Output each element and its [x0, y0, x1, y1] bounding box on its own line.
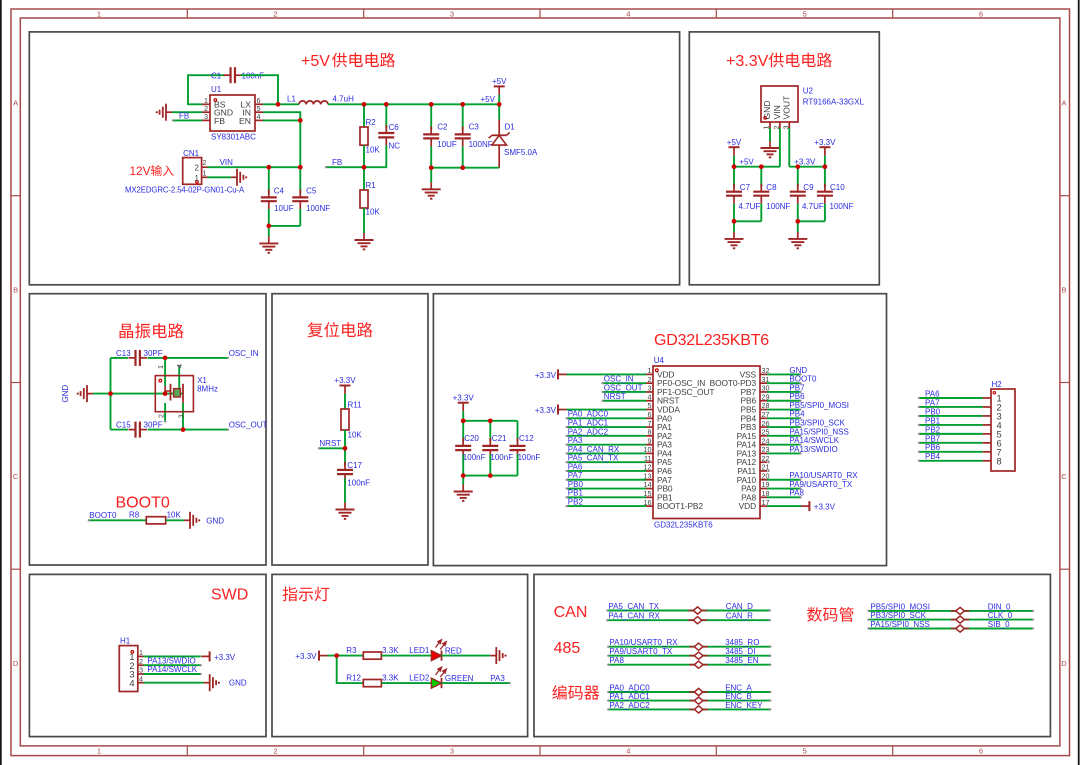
wire PA4_CAN_RX pin10: [566, 452, 646, 454]
capacitor C13: [129, 350, 147, 366]
LED2 diode green: [431, 678, 441, 688]
svg-text:FB: FB: [214, 116, 225, 126]
wire CN1 pin1 gnd: [208, 176, 232, 178]
net label +5V (sec2): [739, 158, 754, 167]
net label PA15/SPI0_NSS (seg): [870, 620, 929, 629]
wire LED2 to PA3: [442, 682, 511, 684]
svg-text:SY8301ABC: SY8301ABC: [211, 133, 256, 142]
junction bottom C2: [429, 165, 434, 170]
ground R8: [184, 512, 200, 529]
svg-text:C6: C6: [389, 123, 400, 132]
net label PB5/SPI0_MOSI (mcu): [789, 401, 849, 410]
svg-text:+5V: +5V: [492, 77, 507, 86]
svg-text:10K: 10K: [366, 146, 381, 155]
svg-text:CAN_D: CAN_D: [726, 602, 753, 611]
wire IN down: [263, 112, 300, 167]
C17 refdes: [347, 461, 362, 470]
net label 3485_DI: [725, 647, 755, 656]
svg-text:H1: H1: [120, 636, 131, 645]
svg-text:1: 1: [97, 747, 101, 756]
svg-text:D1: D1: [505, 123, 516, 132]
resistor R1: [360, 167, 368, 233]
H2 pin stub 3: [983, 415, 991, 417]
window edge left: [0, 0, 2, 765]
svg-text:100NF: 100NF: [469, 140, 493, 149]
svg-text:PB7: PB7: [925, 434, 941, 443]
net label PB1 (mcu): [568, 489, 584, 498]
svg-text:R11: R11: [348, 401, 363, 410]
R2 refdes: [366, 118, 377, 127]
junction EN: [298, 118, 303, 123]
title indicator LEDs: [282, 587, 329, 602]
connector CN1 body: [183, 158, 202, 185]
wire R11 bottom: [344, 430, 346, 448]
wire PA5_CAN_TX-CAN_D: [606, 609, 771, 611]
L1 value 4.7uH: [333, 95, 355, 104]
wire X1 pin1 lead: [164, 358, 166, 386]
wire PA7 to H2: [918, 406, 983, 408]
svg-text:R3: R3: [346, 646, 357, 655]
resistor R3: [363, 652, 381, 659]
svg-text:SIB_0: SIB_0: [988, 620, 1010, 629]
connector H2 body: [991, 389, 1015, 471]
C2 value 10UF: [437, 140, 457, 149]
svg-text:R2: R2: [366, 118, 377, 127]
MCU U4 body: [653, 366, 760, 519]
net port CLK_0: [951, 616, 970, 623]
section box MCU: [433, 294, 886, 566]
wire OSC_OUT row right: [148, 428, 230, 430]
svg-text:PA9/USART0_TX: PA9/USART0_TX: [609, 647, 673, 656]
svg-text:R8: R8: [129, 510, 140, 519]
svg-text:4.7uH: 4.7uH: [333, 95, 355, 104]
svg-text:PA4_CAN_RX: PA4_CAN_RX: [568, 445, 620, 454]
wire U1 FB: [172, 119, 202, 121]
svg-text:LED2: LED2: [409, 674, 430, 683]
net label NRST: [319, 439, 341, 448]
svg-text:PA8: PA8: [789, 489, 804, 498]
power +3.3V pin5: [558, 405, 646, 415]
wire PA15/SPI0_NSS-SIB_0: [867, 627, 1034, 629]
H2 refdes: [992, 380, 1003, 389]
inductor L1: [299, 101, 328, 104]
capacitor C10: [817, 167, 833, 222]
svg-text:ENC_B: ENC_B: [725, 692, 752, 701]
svg-text:6: 6: [979, 747, 983, 756]
net label PA4_CAN_RX: [608, 612, 660, 621]
svg-text:+3.3V: +3.3V: [726, 53, 769, 70]
net label PA1_ADC1 (mcu): [568, 418, 609, 427]
svg-text:CLK_0: CLK_0: [988, 611, 1013, 620]
R11 value 10K: [348, 431, 363, 440]
C7 value 4.7UF: [739, 202, 761, 211]
border row letters A-D: [13, 99, 1067, 668]
svg-text:PA6: PA6: [925, 389, 940, 398]
wire PA5_CAN_TX pin11: [566, 461, 646, 463]
C1 refdes: [211, 72, 222, 81]
junction LX/C1: [276, 102, 281, 107]
svg-text:2: 2: [203, 158, 207, 167]
wire BOOT0 left: [88, 519, 147, 521]
svg-text:4: 4: [175, 364, 184, 368]
svg-text:+5V: +5V: [739, 158, 754, 167]
svg-text:PB3/SPI0_SCK: PB3/SPI0_SCK: [789, 418, 845, 427]
net label PA10/USART0_RX (mcu): [789, 471, 858, 480]
section box crystal: [29, 294, 266, 565]
power +3.3V flag (decoup): [458, 403, 469, 421]
wire PA2_ADC2-ENC_KEY: [607, 708, 771, 710]
svg-text:FB: FB: [179, 112, 189, 121]
LED1 diode red: [431, 651, 441, 661]
svg-text:RED: RED: [445, 647, 462, 656]
svg-text:PA2_ADC2: PA2_ADC2: [568, 427, 609, 436]
net label GND vertical: [61, 384, 70, 402]
svg-text:L1: L1: [287, 95, 296, 104]
net port 3485_EN: [689, 661, 708, 668]
wire PB1 pin15: [566, 496, 646, 498]
ground GND left: [77, 385, 93, 402]
wire PA8-3485_EN: [607, 664, 771, 666]
wire C7C8 bottom: [734, 220, 761, 222]
title BOOT0: [116, 495, 170, 512]
net label PA2_ADC2 (enc): [609, 701, 650, 710]
net label BOOT0 (mcu): [789, 375, 817, 384]
title 12V input: [130, 164, 174, 178]
net label PB3/SPI0_SCK (mcu): [789, 418, 845, 427]
svg-text:PA15/SPI0_NSS: PA15/SPI0_NSS: [870, 620, 929, 629]
svg-text:D: D: [1061, 659, 1067, 668]
R12 value 3.3K (2): [382, 674, 399, 683]
wire D1 top lead: [498, 104, 500, 119]
svg-text:1: 1: [203, 168, 207, 177]
window edge right: [1078, 0, 1080, 765]
svg-text:+3.3V: +3.3V: [814, 503, 836, 512]
C3 value 100NF: [469, 140, 493, 149]
junction X1 pin3: [181, 427, 186, 432]
svg-text:PA15/SPI0_NSS: PA15/SPI0_NSS: [789, 427, 848, 436]
wire PA10/USART0_RX-3485_RO: [607, 646, 771, 648]
svg-text:8: 8: [997, 456, 1002, 466]
C5 value 100NF: [306, 204, 330, 213]
svg-text:100NF: 100NF: [306, 204, 330, 213]
title +5V supply: [301, 53, 395, 70]
svg-text:FB: FB: [332, 158, 342, 167]
net label PA5_CAN_TX: [608, 602, 659, 611]
svg-text:BOOT0: BOOT0: [789, 375, 817, 384]
title +3.3V supply: [726, 53, 832, 70]
net label PB0 (mcu): [568, 480, 584, 489]
svg-text:R12: R12: [346, 674, 361, 683]
svg-text:3.3K: 3.3K: [382, 646, 399, 655]
C8 value 100NF: [766, 202, 790, 211]
power +3.3V text (H1): [214, 653, 236, 662]
wire PB4 pin27: [767, 417, 802, 419]
R2 value 10K: [366, 146, 381, 155]
svg-text:+3.3V: +3.3V: [535, 406, 557, 415]
wire H1 pin4 gnd: [144, 682, 204, 684]
svg-text:PB6: PB6: [789, 392, 805, 401]
net label PA7 (H2): [925, 398, 940, 407]
net label BOOT0: [89, 511, 117, 520]
wire OSC_OUT row left: [111, 429, 128, 431]
title encoder: [552, 685, 599, 700]
net label PA14/SWCLK (mcu): [789, 436, 839, 445]
LED1 arrows: [436, 640, 447, 650]
svg-text:PB4: PB4: [925, 452, 941, 461]
C6 refdes: [389, 123, 400, 132]
power +3.3V pin1: [558, 369, 646, 379]
svg-text:+3.3V: +3.3V: [814, 138, 836, 147]
H2 pin stub 1: [983, 397, 991, 399]
wire NRST pin4: [602, 400, 646, 402]
LED2 refdes: [409, 674, 430, 683]
wire H1 pin1 +3.3V: [144, 651, 210, 661]
LED2 arrows: [436, 667, 447, 677]
net label PB7 (H2): [925, 434, 941, 443]
H2 pin stub 6: [983, 442, 991, 444]
net port ENC_B: [689, 697, 708, 704]
wire X1 pin4 lead: [178, 365, 180, 393]
junction FB: [362, 165, 367, 170]
wire PA3 pin9: [566, 443, 646, 445]
wire OSC_IN row right: [148, 357, 230, 359]
op-amp U1 SY8301ABC body: [210, 95, 255, 131]
net label NRST (mcu): [604, 392, 626, 401]
svg-text:+5V: +5V: [727, 138, 742, 147]
svg-text:10UF: 10UF: [437, 140, 457, 149]
net label 3485_RO: [725, 638, 759, 647]
wire PA10/USART0_RX pin20: [767, 479, 802, 481]
svg-text:100nF: 100nF: [490, 453, 513, 462]
net label ENC_KEY: [725, 701, 763, 710]
net label GND (H1): [229, 679, 247, 688]
svg-text:PB6: PB6: [925, 443, 941, 452]
net label PB1 (H2): [925, 416, 941, 425]
svg-text:B: B: [13, 285, 18, 294]
wire PB7 pin30: [767, 391, 802, 393]
wire PA14/SWCLK (H1): [144, 673, 202, 675]
C4 value 10UF: [274, 204, 294, 213]
net label CLK_0: [988, 611, 1013, 620]
power +3.3V text (led): [295, 652, 317, 661]
title CAN: [554, 604, 588, 621]
capacitor C7: [726, 167, 742, 222]
power +3.3V flag (sec2): [819, 147, 830, 167]
svg-text:C20: C20: [464, 434, 479, 443]
ground C2 rail: [422, 168, 441, 199]
wire GND to crystal: [93, 393, 182, 395]
wire C1 loop left: [188, 75, 225, 104]
svg-text:OSC_OUT: OSC_OUT: [604, 383, 643, 392]
svg-text:NRST: NRST: [604, 392, 626, 401]
capacitor C21: [482, 421, 498, 476]
C3 refdes: [469, 123, 480, 132]
C20 refdes: [464, 434, 479, 443]
svg-text:+3.3V: +3.3V: [453, 393, 475, 402]
svg-text:5: 5: [803, 747, 807, 756]
C4 refdes: [274, 186, 285, 195]
net port CAN_D: [688, 607, 707, 614]
X1 value 8MHz: [197, 385, 218, 394]
wire OSC_OUT pin3: [602, 391, 646, 393]
net label VIN: [220, 158, 234, 167]
svg-text:4.7UF: 4.7UF: [739, 202, 761, 211]
svg-text:PB2: PB2: [568, 498, 584, 507]
C12 value 100nF: [518, 453, 541, 462]
svg-text:100nF: 100nF: [518, 453, 541, 462]
svg-text:30PF: 30PF: [144, 349, 163, 358]
svg-text:C10: C10: [830, 183, 845, 192]
svg-text:PA9/USART0_TX: PA9/USART0_TX: [789, 480, 853, 489]
svg-text:GND: GND: [789, 366, 807, 375]
CN1 pin stubs: [202, 167, 208, 177]
svg-text:BOOT0: BOOT0: [89, 511, 117, 520]
wire GND pin32: [767, 373, 802, 375]
connector H1 body: [119, 646, 138, 692]
wire C9C10 bottom: [798, 220, 825, 222]
svg-text:100NF: 100NF: [830, 202, 854, 211]
power +5V flag text (sec2): [727, 138, 742, 147]
title reset circuit: [308, 322, 373, 337]
svg-text:PB4: PB4: [789, 410, 805, 419]
svg-text:PB0: PB0: [925, 407, 941, 416]
svg-text:R1: R1: [366, 181, 377, 190]
border column numbers 1-6: [97, 10, 983, 756]
R8 refdes: [129, 510, 140, 519]
svg-text:4.7UF: 4.7UF: [802, 202, 824, 211]
D1 value SMF5.0A: [504, 148, 538, 157]
svg-text:C21: C21: [492, 434, 507, 443]
wire U2 VOUT down: [788, 128, 790, 167]
svg-text:MX2EDGRC-2.54-02P-GN01-Cu-A: MX2EDGRC-2.54-02P-GN01-Cu-A: [125, 185, 245, 194]
capacitor C8: [753, 167, 769, 222]
wire R12 to LED2: [381, 682, 431, 684]
svg-text:OSC_OUT: OSC_OUT: [229, 420, 268, 429]
junction X1 pin1: [163, 356, 168, 361]
capacitor C2: [423, 104, 439, 167]
U4 pin numbers: [644, 366, 770, 507]
H2 pin stub 7: [983, 451, 991, 453]
C12 refdes: [519, 434, 534, 443]
junction rail C6: [384, 102, 389, 107]
stub PA11 pin21: [767, 470, 769, 472]
net label OSC_IN: [229, 349, 259, 358]
wire U2 VIN down: [779, 128, 781, 167]
R1 refdes: [366, 181, 377, 190]
wire PA0_ADC0-ENC_A: [607, 691, 771, 693]
svg-text:GND: GND: [229, 679, 247, 688]
wire FB node: [325, 166, 364, 168]
svg-text:PB1: PB1: [568, 489, 584, 498]
wire left vertical: [110, 358, 112, 430]
junction rail C2: [429, 102, 434, 107]
power +5V flag text: [492, 77, 507, 86]
U2 pin stubs: [770, 122, 789, 128]
svg-text:OSC_IN: OSC_IN: [229, 349, 259, 358]
ground LED1: [490, 647, 506, 664]
U1 value SY8301ABC: [211, 133, 256, 142]
svg-text:10K: 10K: [167, 510, 182, 519]
X1 refdes: [197, 376, 207, 385]
title crystal circuit: [120, 323, 184, 338]
svg-text:PB1: PB1: [925, 416, 941, 425]
ground H1: [204, 674, 220, 691]
R3 value 3.3K: [382, 646, 399, 655]
junction rail R2: [362, 102, 367, 107]
CN1 pin numbers outside: [203, 158, 207, 177]
svg-text:3: 3: [176, 414, 185, 418]
svg-text:3485_RO: 3485_RO: [725, 638, 759, 647]
svg-text:PA7: PA7: [925, 398, 940, 407]
net label GND (BOOT0): [206, 516, 224, 525]
C20 value 100nF: [463, 453, 486, 462]
svg-text:PA8: PA8: [609, 656, 624, 665]
net label DIN_0: [988, 602, 1011, 611]
power +3.3V flag (reset): [340, 386, 351, 410]
C8 refdes: [766, 183, 777, 192]
svg-text:C: C: [13, 472, 19, 481]
net label PB0 (H2): [925, 407, 941, 416]
net label SIB_0: [988, 620, 1010, 629]
svg-text:PA14/SWCLK: PA14/SWCLK: [147, 665, 197, 674]
svg-text:PB0: PB0: [568, 480, 584, 489]
svg-text:3: 3: [450, 10, 454, 19]
wire PA9/USART0_TX-3485_DI: [607, 655, 771, 657]
title digit tube: [807, 607, 853, 622]
net label PA15/SPI0_NSS (mcu): [789, 427, 848, 436]
svg-text:10K: 10K: [348, 431, 363, 440]
U2 pin names: [762, 95, 791, 120]
svg-text:PA10/USART0_RX: PA10/USART0_RX: [609, 638, 678, 647]
junction C4 bottom: [266, 224, 271, 229]
L1 refdes: [287, 95, 296, 104]
svg-text:C5: C5: [306, 186, 317, 195]
net label ENC_A: [725, 683, 752, 692]
junction C21 top: [488, 418, 493, 423]
section box reset: [272, 294, 428, 565]
svg-text:PA7: PA7: [568, 471, 583, 480]
svg-text:485: 485: [554, 640, 581, 657]
ground C7: [725, 221, 744, 248]
C13 refdes: [116, 349, 131, 358]
svg-text:1: 1: [97, 10, 101, 19]
svg-text:H2: H2: [992, 380, 1003, 389]
net port SIB_0: [951, 625, 970, 632]
wire PB5/SPI0_MOSI pin28: [767, 408, 802, 410]
net label PB4 (H2): [925, 452, 941, 461]
wire U1 GND: [172, 111, 202, 113]
svg-text:B: B: [1061, 285, 1066, 294]
svg-text:U2: U2: [803, 87, 814, 96]
net label RED: [445, 647, 462, 656]
wire U2 gnd lead: [769, 128, 771, 141]
wire OSC_IN row: [111, 357, 128, 359]
wire LX to L1: [263, 103, 299, 105]
wire PA8 pin18: [767, 496, 802, 498]
svg-text:30PF: 30PF: [144, 420, 163, 429]
U4 refdes: [654, 356, 665, 365]
net label PA0_ADC0 (enc): [609, 683, 650, 692]
net label PB6 (H2): [925, 443, 941, 452]
net label PA6 (mcu): [568, 462, 583, 471]
ground R1: [355, 233, 374, 249]
U1 pin names: [214, 100, 251, 126]
svg-text:PA5_CAN_TX: PA5_CAN_TX: [568, 454, 619, 463]
svg-text:10UF: 10UF: [274, 204, 294, 213]
ground U1 GND: [156, 104, 172, 121]
net label OSC_OUT (mcu): [604, 383, 643, 392]
capacitor C12: [510, 421, 526, 476]
